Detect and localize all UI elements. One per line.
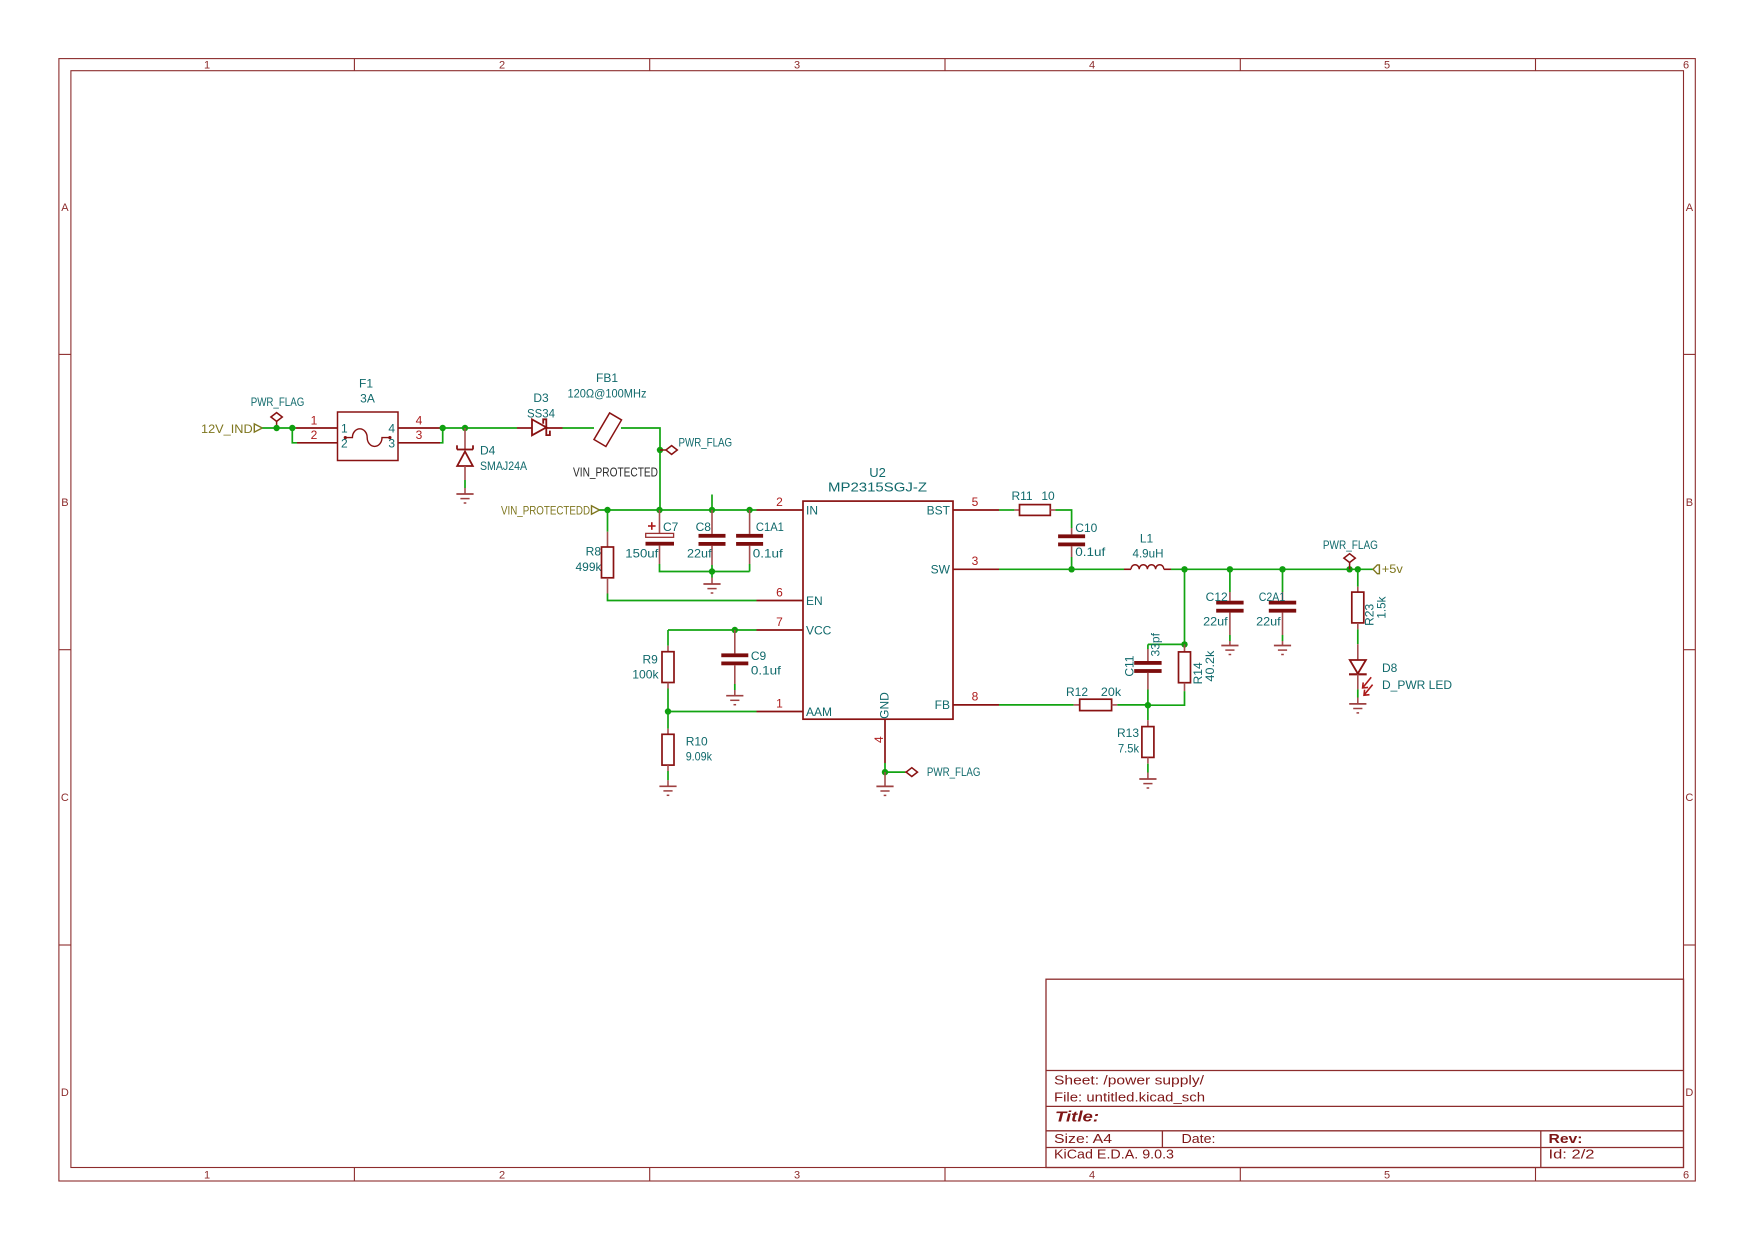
svg-text:6: 6 (1683, 60, 1689, 72)
svg-text:VCC: VCC (806, 623, 832, 637)
svg-text:D: D (1685, 1087, 1693, 1099)
hierarchical label VIN_PROTECTEDD (501, 503, 600, 517)
junction C1A1 tap (746, 507, 752, 513)
svg-text:BST: BST (927, 503, 951, 517)
power flag PF3 (905, 765, 981, 779)
svg-text:150uf: 150uf (625, 547, 659, 561)
pin 8 stub of U2 (953, 704, 999, 706)
wire D4 to ground (464, 480, 466, 488)
svg-text:C7: C7 (663, 520, 679, 534)
svg-text:D4: D4 (480, 444, 496, 458)
junction at 12V input (273, 425, 279, 431)
svg-text:SMAJ24A: SMAJ24A (480, 459, 527, 473)
resistor R12 20k (1066, 685, 1122, 711)
wire L1 to +5v (1171, 568, 1373, 570)
svg-text:A: A (1686, 202, 1694, 214)
svg-text:R9: R9 (642, 652, 658, 666)
wire SW to L1 (999, 568, 1124, 570)
power flag PF2 (660, 435, 732, 454)
wire FB to R12 (999, 704, 1074, 706)
junction D4 tap (462, 425, 468, 431)
wire R11 to C10 (1055, 510, 1071, 528)
wire IN rail (600, 509, 757, 511)
wire R8 to EN (608, 594, 757, 601)
svg-text:2: 2 (341, 436, 348, 450)
hierarchical label 12V_IND (201, 422, 262, 436)
svg-text:AAM: AAM (806, 705, 832, 719)
junction fuse output (440, 425, 446, 431)
junction R8 tap (604, 507, 610, 513)
svg-text:A: A (61, 202, 69, 214)
capacitor C11 33pf (1122, 632, 1162, 689)
wire R13 to ground (1147, 764, 1149, 773)
junction C2A1 tap (1279, 566, 1285, 572)
ground under D4 (456, 488, 473, 503)
svg-text:C11: C11 (1122, 655, 1136, 676)
wire C2A1 to ground (1282, 635, 1284, 641)
wire C1A1 to bus (749, 564, 751, 572)
junction PWR_FLAG tap (657, 447, 663, 453)
junction R23 tap (1355, 566, 1361, 572)
svg-text:5: 5 (972, 495, 979, 509)
svg-text:12V_IND: 12V_IND (201, 422, 253, 436)
wire to fuse pin 2 (292, 428, 297, 443)
svg-text:22uf: 22uf (1203, 615, 1228, 629)
svg-text:1: 1 (776, 696, 783, 710)
pin 6 stub of U2 (757, 600, 804, 602)
svg-text:0.1uf: 0.1uf (751, 664, 782, 678)
svg-text:0.1uf: 0.1uf (753, 547, 784, 561)
wire VCC rail (668, 629, 757, 631)
svg-text:C2A1: C2A1 (1259, 590, 1286, 604)
svg-text:1.5k: 1.5k (1375, 596, 1389, 619)
svg-text:4: 4 (872, 736, 886, 743)
wire C9 to ground (734, 684, 736, 690)
power flag PF4 (1323, 538, 1378, 569)
svg-text:F1: F1 (359, 376, 373, 390)
svg-text:PWR_FLAG: PWR_FLAG (1323, 538, 1378, 552)
svg-text:4: 4 (1089, 60, 1095, 72)
svg-text:B: B (61, 497, 68, 509)
junction C9 tap (732, 627, 738, 633)
pin 4 stub of U2 GND (872, 719, 886, 763)
svg-text:Sheet: /power supply/: Sheet: /power supply/ (1054, 1074, 1205, 1088)
junction C8 tap (709, 507, 715, 513)
svg-text:3: 3 (388, 436, 395, 450)
ground under C12 (1221, 641, 1238, 655)
ground under C8 bus (703, 578, 720, 594)
svg-text:1: 1 (311, 413, 318, 427)
svg-text:File: untitled.kicad_sch: File: untitled.kicad_sch (1054, 1091, 1205, 1105)
svg-text:C9: C9 (751, 649, 767, 663)
svg-text:4: 4 (416, 413, 423, 427)
capacitor C1A1 0.1uf (736, 510, 784, 564)
svg-text:R11: R11 (1011, 489, 1032, 503)
wire R14 top node (1148, 643, 1185, 645)
svg-text:MP2315SGJ-Z: MP2315SGJ-Z (828, 480, 927, 495)
wire R14 to FB node (1148, 691, 1185, 705)
svg-text:C10: C10 (1075, 521, 1097, 535)
wire C8 to bus (711, 565, 713, 572)
wire D3 to FB1 (563, 427, 595, 429)
svg-text:40.2k: 40.2k (1203, 650, 1217, 682)
svg-text:PWR_FLAG: PWR_FLAG (927, 765, 981, 779)
svg-text:IN: IN (806, 503, 818, 517)
junction C7 tap (656, 507, 662, 513)
svg-text:Title:: Title: (1055, 1109, 1099, 1126)
svg-text:2: 2 (776, 495, 783, 509)
svg-text:499k: 499k (576, 560, 603, 574)
junction R10 tap (665, 708, 671, 714)
svg-text:R10: R10 (686, 734, 708, 748)
resistor R8 499k (576, 510, 614, 594)
svg-text:22uf: 22uf (687, 547, 712, 561)
junction C10 SW (1068, 566, 1074, 572)
svg-text:C: C (61, 792, 69, 804)
svg-text:PWR_FLAG: PWR_FLAG (251, 395, 305, 409)
svg-text:2: 2 (499, 1169, 505, 1181)
svg-text:FB: FB (935, 698, 950, 712)
capacitor C2A1 22uf (1256, 569, 1296, 635)
svg-text:2: 2 (311, 428, 318, 442)
svg-text:3: 3 (794, 1169, 800, 1181)
svg-text:D8: D8 (1382, 661, 1398, 675)
svg-text:GND: GND (877, 692, 891, 719)
svg-text:Rev:: Rev: (1549, 1132, 1583, 1146)
junction C12 tap (1227, 566, 1233, 572)
junction R14 top (1181, 641, 1187, 647)
svg-text:C1A1: C1A1 (756, 520, 784, 534)
svg-text:120Ω@100MHz: 120Ω@100MHz (568, 386, 647, 400)
junction R14 branch (1181, 566, 1187, 572)
svg-text:C12: C12 (1206, 590, 1228, 604)
svg-text:VIN_PROTECTEDD: VIN_PROTECTEDD (501, 503, 590, 517)
ground under R10 (659, 780, 676, 795)
wire 12V_IND to fuse (262, 427, 296, 429)
svg-text:5: 5 (1384, 1169, 1390, 1181)
svg-text:9.09k: 9.09k (686, 750, 713, 764)
ground under D8 (1349, 698, 1366, 713)
frame row letters (61, 202, 1694, 1099)
resistor R23 1.5k (1352, 569, 1389, 629)
svg-text:33pf: 33pf (1149, 632, 1163, 656)
wire R10 to ground (667, 771, 669, 780)
pin 3 stub of U2 (953, 568, 999, 570)
title block (1046, 979, 1684, 1167)
wire SW branch down (1184, 569, 1186, 644)
svg-text:Size: A4: Size: A4 (1054, 1132, 1112, 1146)
wire BST to R11 (999, 509, 1014, 511)
svg-text:1: 1 (204, 60, 210, 72)
svg-text:10: 10 (1041, 489, 1055, 503)
svg-text:7: 7 (776, 615, 783, 629)
ground under C2A1 (1274, 641, 1291, 655)
svg-text:22uf: 22uf (1256, 615, 1281, 629)
svg-text:0.1uf: 0.1uf (1075, 545, 1106, 559)
svg-text:20k: 20k (1101, 685, 1122, 699)
resistor R10 9.09k (662, 712, 713, 772)
junction FB node (1145, 702, 1151, 708)
svg-text:FB1: FB1 (596, 371, 618, 385)
svg-text:3: 3 (972, 554, 979, 568)
svg-text:3: 3 (794, 60, 800, 72)
wire stub above C8 (711, 495, 713, 511)
capacitor C9 0.1uf (721, 630, 781, 684)
svg-text:PWR_FLAG: PWR_FLAG (679, 435, 733, 449)
ferrite bead FB1 120R@100MHz (568, 371, 647, 446)
svg-text:EN: EN (806, 594, 823, 608)
svg-text:1: 1 (341, 421, 348, 435)
pin 1 stub of U2 (757, 711, 804, 713)
svg-text:Id: 2/2: Id: 2/2 (1549, 1148, 1595, 1162)
svg-text:5: 5 (1384, 60, 1390, 72)
resistor R9 100k (632, 630, 674, 689)
svg-text:100k: 100k (632, 668, 659, 682)
svg-text:4: 4 (1089, 1169, 1095, 1181)
svg-text:6: 6 (776, 585, 783, 599)
resistor R13 7.5k (1117, 705, 1154, 764)
svg-text:6: 6 (1683, 1169, 1689, 1181)
svg-text:3A: 3A (360, 392, 375, 406)
svg-text:4: 4 (388, 421, 395, 435)
svg-text:D: D (61, 1087, 69, 1099)
wire fuse output merge (440, 428, 443, 443)
svg-text:B: B (1686, 497, 1693, 509)
svg-text:8: 8 (972, 690, 979, 704)
svg-text:R12: R12 (1066, 685, 1088, 699)
svg-text:+5v: +5v (1382, 562, 1403, 576)
wire D8 to ground (1357, 689, 1359, 697)
inductor L1 4.9uH (1124, 532, 1171, 570)
capacitor C7 150uf (625, 510, 678, 564)
svg-text:2: 2 (499, 60, 505, 72)
hierarchical label +5v (1373, 562, 1403, 576)
svg-text:U2: U2 (869, 465, 886, 480)
op-amp U2 MP2315SGJ-Z body (803, 465, 953, 719)
wire fuse to D3 (440, 427, 517, 429)
svg-text:1: 1 (204, 1169, 210, 1181)
wire C10 to SW rail (1071, 557, 1073, 569)
wire C11 to FB node (1147, 690, 1149, 706)
wire R23 to D8 (1357, 629, 1359, 644)
svg-text:C8: C8 (696, 520, 712, 534)
svg-text:KiCad E.D.A. 9.0.3: KiCad E.D.A. 9.0.3 (1054, 1148, 1174, 1162)
diode D3 SS34 (517, 391, 563, 435)
LED D8 D_PWR (1349, 644, 1452, 695)
junction bottom bus (709, 568, 715, 574)
capacitor C10 0.1uf (1058, 521, 1106, 559)
pin 2 stub of U2 (757, 509, 804, 511)
svg-text:SW: SW (931, 563, 951, 577)
junction PWR_FLAG 5v (1346, 566, 1352, 572)
svg-text:7.5k: 7.5k (1118, 741, 1140, 755)
fuse F1 3A (296, 376, 440, 460)
svg-text:L1: L1 (1140, 532, 1154, 546)
ground under R13 (1139, 773, 1156, 789)
frame column numbers (204, 60, 1689, 1182)
wire FB1 to corner (621, 428, 660, 510)
junction GND flag (882, 769, 888, 775)
svg-text:Date:: Date: (1182, 1132, 1216, 1146)
svg-text:4.9uH: 4.9uH (1133, 546, 1164, 560)
svg-text:C: C (1685, 792, 1693, 804)
wire R9 to AAM (667, 689, 669, 712)
svg-text:3: 3 (416, 428, 423, 442)
wire R12 to FB node (1117, 704, 1148, 706)
resistor R11 10 (1011, 489, 1055, 515)
wire AAM rail (668, 711, 757, 713)
svg-text:VIN_PROTECTED: VIN_PROTECTED (573, 466, 658, 480)
resistor R14 40.2k (1179, 644, 1218, 691)
svg-text:D3: D3 (533, 391, 549, 405)
wire GND pin to junction (885, 763, 905, 772)
svg-text:R13: R13 (1117, 726, 1139, 740)
pin 7 stub of U2 (757, 629, 804, 631)
svg-text:D_PWR LED: D_PWR LED (1382, 678, 1452, 692)
pin 5 stub of U2 (953, 509, 999, 511)
capacitor C12 22uf (1203, 569, 1244, 635)
wire C12 to ground (1229, 635, 1231, 641)
capacitor C8 22uf (687, 510, 726, 565)
ground under C9 (726, 690, 743, 705)
wire bus to ground (711, 572, 713, 578)
wire C7 to bottom bus (660, 564, 750, 572)
diode D4 SMAJ24A (457, 428, 527, 480)
ground under U2 (876, 772, 893, 795)
svg-text:R8: R8 (586, 545, 602, 559)
power flag PF1 (251, 395, 305, 428)
junction fuse branch (289, 425, 295, 431)
